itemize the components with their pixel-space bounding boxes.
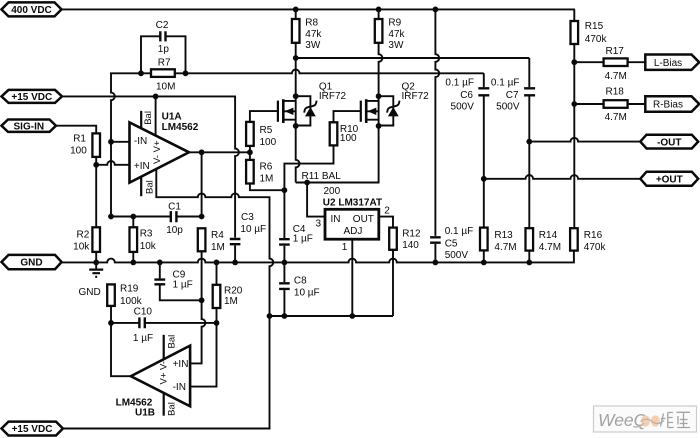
svg-text:IN: IN [331,214,341,225]
svg-text:R12: R12 [402,229,421,240]
capacitor C10 [111,322,217,324]
svg-text:R-Bias: R-Bias [653,100,683,111]
svg-text:U1A: U1A [162,111,182,122]
resistor R2 [92,227,100,252]
svg-text:L-Bias: L-Bias [654,58,682,69]
resistor R15 [573,9,576,21]
svg-text:R20: R20 [224,286,243,297]
svg-text:Bal: Bal [145,180,156,194]
svg-text:10p: 10p [166,225,183,236]
resistor R16 [570,228,578,250]
node +15 VDC input tag [2,90,63,103]
svg-text:Bal: Bal [167,335,178,349]
svg-text:1M: 1M [211,242,225,253]
svg-text:R6: R6 [260,162,273,173]
svg-text:C8: C8 [294,276,307,287]
svg-text:IRF72: IRF72 [319,91,347,102]
svg-text:U2 LM317AT: U2 LM317AT [323,198,382,209]
capacitor C4 [283,190,285,238]
svg-text:C6: C6 [460,90,473,101]
svg-text:+IN: +IN [134,161,150,172]
svg-text:100: 100 [70,146,87,157]
svg-text:3W: 3W [305,40,321,51]
svg-text:4.7M: 4.7M [605,112,627,123]
node R-Bias output tag [645,96,699,111]
svg-text:10k: 10k [140,241,157,252]
svg-text:1: 1 [342,242,348,253]
resistor R17 [574,61,603,63]
regulator U2 LM317AT [325,209,379,239]
svg-text:R8: R8 [305,18,318,29]
wire -OUT with hop over R15 column [529,138,640,142]
svg-text:+15 VDC: +15 VDC [11,92,52,103]
node junction R2 bottom [93,260,99,266]
wire output column down to R4 and U1B +IN with hop over C10 line [190,152,205,363]
svg-text:100: 100 [260,137,277,148]
svg-text:1 µF: 1 µF [293,234,313,245]
svg-text:OUT: OUT [353,214,374,225]
svg-text:10M: 10M [156,81,175,92]
node junction C5 column top [433,6,439,12]
svg-text:47k: 47k [388,29,405,40]
resistor R5 [246,122,254,146]
wire -IN [111,141,131,143]
svg-text:C7: C7 [506,90,519,101]
svg-text:R4: R4 [211,230,224,241]
node junction C5 bottom [433,260,439,266]
node junction R14 bottom [526,260,532,266]
op-amp U1B [131,346,190,407]
svg-text:3W: 3W [388,40,404,51]
svg-text:C10: C10 [134,307,153,318]
svg-text:1p: 1p [158,44,170,55]
wire B feedback rail to C6 with hop over Q1 column [186,70,484,74]
node junction -OUT tap [526,139,532,145]
node junction R8 top [293,6,299,12]
wire U1A output [189,151,250,153]
node junction C10 left [108,320,114,326]
node +15 VDC bottom tag [2,422,63,436]
wire R15 column down to R16 [573,44,575,228]
svg-text:-IN: -IN [134,136,147,147]
wire U1A V- stub and V- line with hops [156,169,273,316]
node junction R7 left [138,70,144,76]
node junction R9 top [376,6,382,12]
svg-text:+15 VDC: +15 VDC [12,424,53,435]
svg-text:47k: 47k [305,29,322,40]
node junction V+ stub [153,94,159,100]
node 400 VDC input tag [2,2,62,16]
svg-text:SIG-IN: SIG-IN [14,121,45,132]
wire V- rail under U2 [270,315,394,317]
svg-text:V+ V-: V+ V- [158,361,169,385]
pin U1B Bal top [163,335,165,359]
transistor Q2 IRF72 [376,93,382,99]
svg-text:+OUT: +OUT [656,175,683,186]
svg-text:400 VDC: 400 VDC [11,5,52,16]
capacitor C7 [528,58,530,87]
node junction V- riser tee [267,313,273,319]
capacitor C5 [430,237,441,242]
svg-text:WeeQ: WeeQ [598,410,648,430]
node junction R20 top [214,260,220,266]
svg-text:10k: 10k [73,241,90,252]
svg-text:-IN: -IN [173,382,186,393]
wire Q1 gate to R5 [250,111,278,122]
pin U1A Bal top [140,111,142,128]
capacitor C9 [159,262,161,278]
node junction C10 right [214,320,220,326]
node junction R1 bottom [93,162,99,168]
svg-text:1 µF: 1 µF [133,333,153,344]
svg-text:0.1 µF: 0.1 µF [491,78,520,89]
resistor R6 [246,160,254,184]
svg-text:500V: 500V [445,250,469,261]
wire R1 to U1A +IN with hop over feedback riser [96,161,130,165]
node GND input tag [2,255,62,269]
svg-text:Bal: Bal [167,402,178,416]
svg-text:1M: 1M [260,174,274,185]
wire top 400V rail [62,8,576,10]
node -OUT output tag [640,135,698,149]
resistor R12 [389,228,397,250]
svg-text:ADJ: ADJ [344,226,363,237]
wire V- riser to bottom +15 rail [63,316,270,429]
resistor R1 [56,126,96,134]
resistor R4 [198,228,206,251]
resistor R20 [216,262,218,284]
wire U2 IN riser [307,183,325,217]
svg-text:U1B: U1B [135,407,155,418]
svg-text:470k: 470k [585,34,608,45]
node junction R3 bottom [130,260,136,266]
svg-text:R3: R3 [140,229,153,240]
node junction C4 C8 [282,260,288,266]
wire -IN riser U1B [190,323,216,387]
resistor R9 [375,19,383,43]
svg-text:4.7M: 4.7M [539,242,561,253]
svg-text:R17: R17 [606,46,625,57]
resistor R19 [107,284,115,306]
svg-text:IRF72: IRF72 [402,91,430,102]
node junction R6 R10 C4 [282,187,288,193]
svg-text:R19: R19 [120,284,139,295]
svg-text:R2: R2 [77,229,90,240]
transistor Q1 IRF72 [293,93,299,99]
svg-text:1M: 1M [224,296,238,307]
svg-text:10 µF: 10 µF [240,224,266,235]
resistor R13 [480,228,488,251]
svg-text:500V: 500V [451,102,475,113]
capacitor C1 [111,216,202,218]
svg-text:100: 100 [340,133,357,144]
svg-text:4.7M: 4.7M [494,242,516,253]
wire +OUT with hops over C7 and R15 columns [484,175,641,179]
node +OUT output tag [640,172,698,186]
svg-text:0.1 µF: 0.1 µF [445,226,474,237]
svg-text:R18: R18 [606,86,625,97]
svg-text:R13: R13 [494,230,513,241]
wire R10 bottom to R6/C4 node [284,145,333,190]
resistor R8 [295,9,297,19]
svg-text:-OUT: -OUT [657,137,681,148]
wire R11 balance line [296,126,379,183]
capacitor C8 [283,262,285,282]
wire GND rail with hops [62,251,574,263]
svg-text:LM4562: LM4562 [162,122,199,133]
wire R1 down to R2 [95,165,97,228]
svg-text:C1: C1 [168,202,181,213]
watermark WeeQoo [594,406,697,432]
node junction C1 line left [108,214,114,220]
node junction C3 bottom [232,260,238,266]
svg-text:Bal: Bal [143,111,154,125]
node junction R18 tap [571,101,577,107]
svg-text:+IN: +IN [173,359,189,370]
svg-text:C2: C2 [156,20,169,31]
svg-text:1 µF: 1 µF [173,279,193,290]
node junction R11 tap to U2 [304,180,310,186]
node junction +OUT tap [481,176,487,182]
resistor R18 [574,103,603,105]
svg-text:3: 3 [316,218,322,229]
capacitor C3 [230,239,241,244]
node junction R3 top [130,214,136,220]
pin U1B Bal bottom [163,393,165,416]
svg-text:C5: C5 [445,239,458,250]
svg-text:100k: 100k [120,296,143,307]
node junction R8 bottom / wire A [293,55,299,61]
wire U2 OUT pin to R12 [379,217,393,228]
svg-text:R5: R5 [260,125,273,136]
wire +15 rail to C3 column [62,96,239,237]
capacitor C6 [483,73,485,87]
wire Q2 gate to R10 [334,111,361,122]
node SIG-IN input tag [2,120,57,132]
node junction R13 bottom [481,260,487,266]
node L-Bias output tag [645,55,699,70]
svg-text:R14: R14 [539,230,558,241]
wire C5 column with hops over wire A and wire B [435,9,439,236]
svg-text:10 µF: 10 µF [294,288,320,299]
pin U1A Bal bottom [140,177,142,197]
svg-text:140: 140 [402,240,419,251]
wire x111 feedback riser with hop over +15 rail [111,73,141,216]
resistor R14 [526,228,534,250]
svg-text:V- V+: V- V+ [152,140,163,164]
svg-text:R1: R1 [73,134,86,145]
wire R19 to U1B output [111,323,131,376]
node junction C9 to +IN riser [199,297,205,303]
wire U2 ADJ pin down [351,239,353,316]
resistor R10 [330,122,338,145]
svg-text:0.1 µF: 0.1 µF [445,78,474,89]
op-amp U1A [130,122,190,182]
node junction -IN [108,139,114,145]
svg-text:4.7M: 4.7M [605,71,627,82]
node junction R4 top / C1 right [199,214,205,220]
node junction output column [199,149,205,155]
node junction R17 tap [571,59,577,65]
wire R9 to Q2 drain with hop over wire A [379,43,383,96]
node junction C9 top [157,260,163,266]
resistor R7 [151,69,175,77]
node junction U1A output / R5 / R6 [247,149,253,155]
svg-text:200: 200 [324,186,341,197]
wire A from R8 bottom to C7 [296,57,530,59]
ground symbol [95,262,97,268]
svg-text:GND: GND [79,287,101,298]
wire Q1 drain column [295,58,297,96]
wire U1A V+ stub [155,96,157,135]
capacitor C2 [141,36,186,73]
svg-text:R15: R15 [585,21,604,32]
svg-text:GND: GND [20,258,42,269]
svg-text:R9: R9 [388,18,401,29]
node junction ADJ on V- rail [349,313,355,319]
svg-text:R16: R16 [584,230,603,241]
svg-text:470k: 470k [584,242,607,253]
svg-text:2: 2 [384,205,390,216]
svg-text:R7: R7 [158,57,171,68]
svg-text:500V: 500V [496,102,520,113]
node junction C8 bottom [282,313,288,319]
svg-text:C3: C3 [241,212,254,223]
node junction R7 right [183,70,189,76]
wire C7 column to R14 with hop at +OUT [528,142,530,229]
wire Q1 source down with hop over R10 wire [296,126,300,183]
resistor R3 [132,217,134,228]
